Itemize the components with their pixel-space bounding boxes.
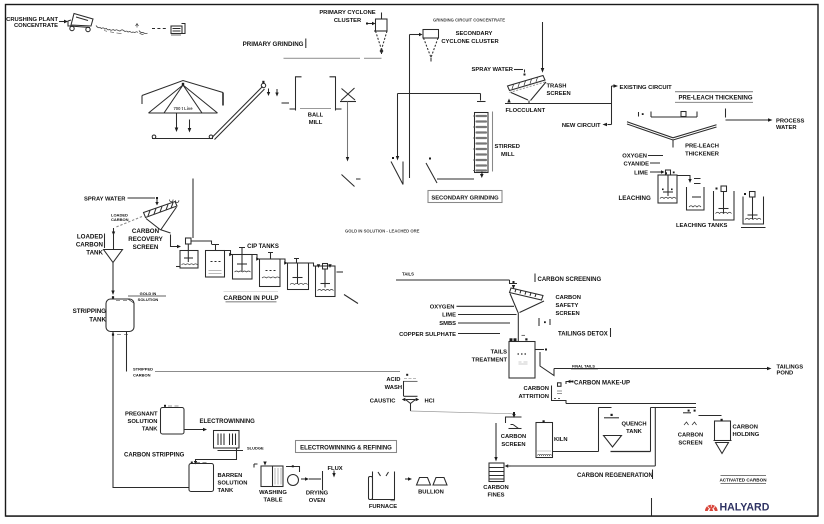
svg-text:CARBON: CARBON [111, 217, 129, 222]
svg-text:FINAL TAILS: FINAL TAILS [572, 365, 595, 369]
svg-text:TAILS: TAILS [491, 350, 507, 356]
svg-text:CARBON: CARBON [483, 485, 508, 491]
svg-text:SMBS: SMBS [439, 321, 456, 327]
svg-text:CARBON: CARBON [678, 433, 703, 439]
svg-text:BALL: BALL [308, 113, 324, 119]
svg-text:CAUSTIC: CAUSTIC [370, 399, 397, 405]
svg-text:KILN: KILN [554, 437, 568, 443]
svg-text:HOLDING: HOLDING [733, 432, 760, 438]
svg-text:TABLE: TABLE [264, 498, 283, 504]
svg-text:STRIPPING: STRIPPING [73, 308, 107, 315]
svg-text:NEW CIRCUIT: NEW CIRCUIT [562, 123, 601, 129]
svg-text:TREATMENT: TREATMENT [472, 358, 508, 364]
svg-text:SPRAY WATER: SPRAY WATER [472, 67, 514, 73]
svg-text:DRYING: DRYING [306, 491, 329, 497]
svg-text:MILL: MILL [501, 152, 515, 158]
svg-text:BARREN: BARREN [218, 473, 243, 479]
svg-text:ACID: ACID [386, 377, 400, 383]
svg-text:WASHING: WASHING [259, 490, 287, 496]
svg-text:SOLUTION: SOLUTION [138, 297, 159, 302]
svg-text:CARBON: CARBON [76, 242, 104, 249]
svg-text:HCl: HCl [425, 399, 435, 405]
svg-text:COPPER SULPHATE: COPPER SULPHATE [399, 332, 456, 338]
svg-text:WATER: WATER [776, 125, 797, 131]
svg-text:700 t Live: 700 t Live [173, 106, 193, 111]
svg-text:ELECTROWINNING & REFINING: ELECTROWINNING & REFINING [300, 446, 392, 452]
svg-text:PRE-LEACH THICKENING: PRE-LEACH THICKENING [679, 96, 753, 102]
svg-text:SCREEN: SCREEN [556, 311, 580, 317]
svg-text:GOLD IN SOLUTION - LEACHED ORE: GOLD IN SOLUTION - LEACHED ORE [345, 229, 420, 234]
svg-text:PROCESS: PROCESS [776, 119, 804, 125]
svg-text:BULLION: BULLION [418, 490, 444, 496]
svg-text:CIP TANKS: CIP TANKS [247, 244, 279, 250]
svg-text:TANK: TANK [218, 488, 234, 494]
svg-text:HALYARD: HALYARD [720, 502, 770, 514]
svg-text:FURNACE: FURNACE [369, 504, 397, 510]
svg-text:LOADED: LOADED [77, 234, 104, 241]
svg-text:SCREEN: SCREEN [678, 441, 702, 447]
svg-text:CLUSTER: CLUSTER [334, 18, 362, 24]
svg-text:OVEN: OVEN [309, 498, 325, 504]
svg-text:EXISTING CIRCUIT: EXISTING CIRCUIT [620, 85, 673, 91]
svg-text:SPRAY WATER: SPRAY WATER [84, 197, 126, 203]
svg-text:LIME: LIME [442, 313, 456, 319]
svg-text:GOLD IN: GOLD IN [140, 291, 157, 296]
svg-text:CARBON REGENERATION: CARBON REGENERATION [577, 473, 653, 479]
svg-text:POND: POND [777, 371, 794, 377]
svg-text:MILL: MILL [309, 120, 323, 126]
svg-text:FLOCCULANT: FLOCCULANT [506, 108, 546, 114]
svg-text:TANK: TANK [89, 317, 106, 324]
svg-text:PRIMARY GRINDING: PRIMARY GRINDING [243, 41, 304, 48]
svg-text:SECONDARY GRINDING: SECONDARY GRINDING [431, 196, 499, 202]
svg-text:OXYGEN: OXYGEN [622, 154, 647, 160]
svg-text:SAFETY: SAFETY [556, 303, 579, 309]
svg-text:LIME: LIME [634, 171, 648, 177]
svg-text:SOLUTION: SOLUTION [128, 419, 158, 425]
svg-text:TRASH: TRASH [547, 84, 567, 90]
svg-text:CARBON: CARBON [501, 434, 526, 440]
svg-text:PRIMARY CYCLONE: PRIMARY CYCLONE [319, 10, 375, 16]
svg-text:WASH: WASH [385, 385, 402, 391]
svg-text:ATTRITION: ATTRITION [519, 394, 549, 400]
svg-text:SOLUTION: SOLUTION [218, 481, 248, 487]
svg-text:LEACHING TANKS: LEACHING TANKS [676, 223, 728, 229]
svg-text:QUENCH: QUENCH [621, 422, 646, 428]
svg-text:CARBON: CARBON [133, 373, 151, 378]
svg-text:THICKENER: THICKENER [685, 152, 720, 158]
svg-text:SECONDARY: SECONDARY [456, 31, 493, 37]
svg-text:PRE-LEACH: PRE-LEACH [685, 144, 719, 150]
svg-text:CARBON STRIPPING: CARBON STRIPPING [124, 453, 185, 459]
svg-text:STRIPPED: STRIPPED [133, 367, 153, 372]
svg-text:ELECTROWINNING: ELECTROWINNING [200, 419, 256, 425]
svg-text:RECOVERY: RECOVERY [128, 236, 163, 243]
svg-text:PREGNANT: PREGNANT [125, 412, 158, 418]
svg-text:TAILINGS DETOX: TAILINGS DETOX [558, 332, 608, 338]
svg-text:GRINDING CIRCUIT CONCENTRATE: GRINDING CIRCUIT CONCENTRATE [433, 18, 505, 23]
svg-text:CARBON: CARBON [556, 295, 581, 301]
svg-text:SCREEN: SCREEN [501, 442, 525, 448]
svg-text:CARBON IN PULP: CARBON IN PULP [223, 295, 279, 302]
svg-text:TANK: TANK [626, 429, 642, 435]
svg-text:LEACHING: LEACHING [619, 195, 651, 202]
svg-text:CYCLONE CLUSTER: CYCLONE CLUSTER [441, 39, 499, 45]
svg-text:OXYGEN: OXYGEN [430, 305, 455, 311]
svg-text:TANK: TANK [142, 427, 158, 433]
svg-text:FINES: FINES [487, 493, 504, 499]
svg-text:SCREEN: SCREEN [547, 91, 571, 97]
svg-text:TAILS: TAILS [402, 272, 414, 277]
svg-text:CARBON: CARBON [524, 386, 549, 392]
svg-text:CARBON MAKE-UP: CARBON MAKE-UP [574, 381, 630, 387]
svg-text:CYANIDE: CYANIDE [623, 162, 649, 168]
svg-text:STIRRED: STIRRED [495, 144, 520, 150]
svg-text:FLUX: FLUX [328, 466, 343, 472]
svg-text:CONCENTRATE: CONCENTRATE [14, 23, 58, 29]
svg-text:TANK: TANK [86, 250, 103, 257]
svg-text:SLUDGE: SLUDGE [247, 446, 264, 451]
svg-text:CARBON: CARBON [132, 228, 160, 235]
svg-text:SCREEN: SCREEN [133, 244, 159, 251]
svg-text:ACTIVATED CARBON: ACTIVATED CARBON [719, 478, 767, 483]
svg-text:CARBON: CARBON [733, 425, 758, 431]
svg-text:CARBON SCREENING: CARBON SCREENING [538, 277, 602, 283]
